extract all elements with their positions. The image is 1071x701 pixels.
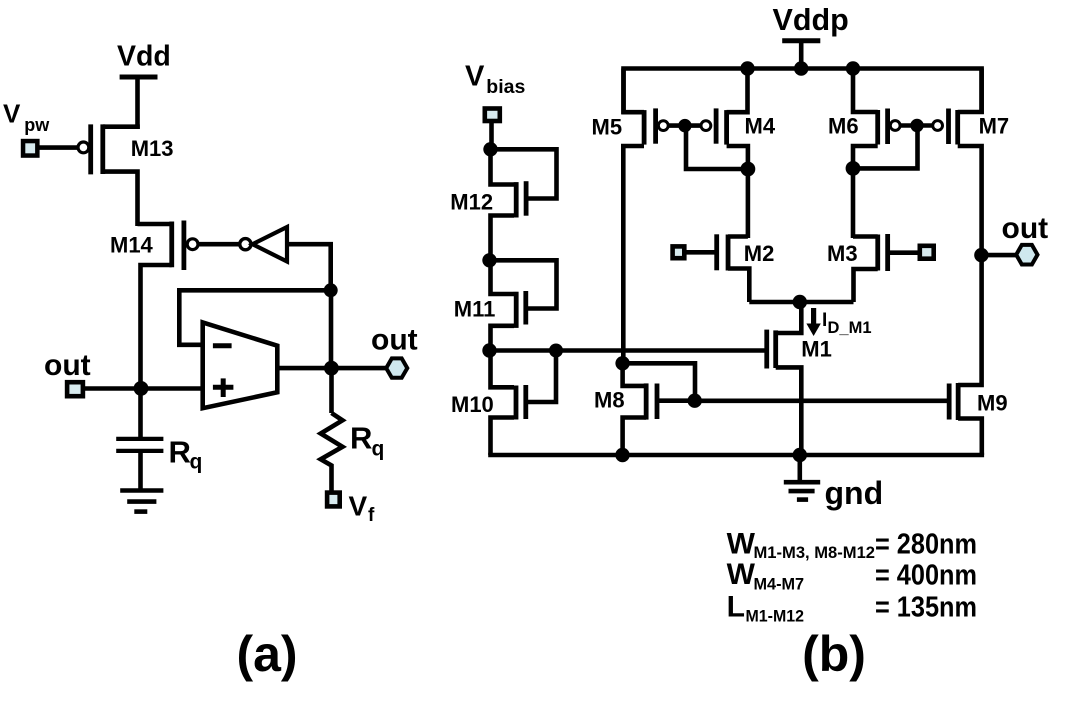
wire top rail [624,69,982,115]
svg-text:M2: M2 [744,241,775,266]
label L M1-M12 [727,590,977,625]
wire feedback [179,290,330,345]
wire tail [749,300,853,305]
terminal V_bias [485,109,500,122]
caption (b) [802,626,866,682]
transistor M1 [767,302,802,455]
terminal V_pw [23,141,37,156]
wire M2 gate [686,250,717,255]
label out b [1002,212,1049,245]
node out [974,248,988,262]
label M4 [745,114,776,139]
label W M1-M3,M8-M12 [727,527,977,562]
node tail [793,295,807,309]
wire M10 gate [526,351,556,403]
transistor M5 [623,69,655,364]
label out right [371,324,418,357]
svg-text:M1: M1 [801,337,832,362]
wire M8 diode [623,363,695,400]
svg-text:M3: M3 [827,241,858,266]
label W M4-M7 [727,558,977,593]
svg-text:= 280nm: = 280nm [875,528,977,560]
svg-text:(a): (a) [236,626,297,682]
label M10 [451,392,494,417]
svg-text:V: V [465,61,485,93]
svg-text:M5: M5 [592,115,623,140]
current arrow I_D_M1 [806,308,820,336]
svg-text:M1-M12: M1-M12 [746,607,805,626]
terminal out left [67,382,83,396]
wire gnd stem [797,455,802,481]
junction rail-M6 [846,61,860,75]
svg-text:M13: M13 [131,136,174,161]
power symbol Vdd [120,77,158,129]
transistor M6 [853,69,888,169]
wire M5-M4 gates [669,123,702,128]
net label Vddp [773,3,849,37]
svg-text:out: out [371,324,418,357]
op-amp U2 [203,322,278,408]
wire node B to capacitor [138,388,143,437]
svg-text:I: I [822,310,827,331]
transistor M2 [717,234,750,302]
label M3 [827,241,858,266]
wire M4-M2 [746,169,751,238]
transistor M8 [623,363,657,455]
power symbol Vddp [782,41,820,70]
svg-text:W: W [727,558,756,591]
svg-text:M11: M11 [454,297,496,322]
capacitor Rq plates [116,439,163,451]
label M1 [801,337,832,362]
label M8 [594,388,625,413]
label M6 [828,114,859,139]
wire M8-M9 gates [695,398,948,403]
svg-text:M4: M4 [745,114,776,139]
label Rq capacitor [169,434,203,473]
node M6 drain [846,161,861,176]
wire op-amp output [277,366,388,371]
junction M4-M5 gates [678,119,691,132]
terminal M3 gate [920,246,934,259]
gate bubble M5 [658,121,668,131]
node C [324,361,339,376]
wire inverter-gate [199,242,240,247]
transistor M4 [716,69,748,172]
wire Vpw-gate [38,145,78,150]
label V_f [349,491,376,527]
wire M11 diode [491,260,557,308]
caption (a) [236,626,297,682]
resistor Rq [321,413,343,491]
transistor M7 [949,69,982,256]
transistor M14 [138,221,184,391]
terminal out b [1016,245,1037,265]
svg-text:V: V [3,99,21,129]
junction rail-M4 [740,61,754,75]
wire M8 gate lead [657,398,695,403]
junction M6-M7 gates [910,119,923,132]
wire M6-M7 gates [900,123,933,128]
junction M10 gate [549,344,563,358]
svg-text:= 135nm: = 135nm [875,592,977,624]
wire M6 diode [853,126,918,169]
junction M10-M11 [482,343,496,357]
svg-text:(b): (b) [802,626,866,682]
svg-text:out: out [44,349,91,382]
svg-text:M1-M3, M8-M12: M1-M3, M8-M12 [754,543,876,562]
node M11 drain [482,253,496,267]
op-amp minus sign [213,343,232,348]
svg-text:q: q [372,438,385,461]
node M4 drain [741,162,756,177]
label M5 [592,115,623,140]
transistor M11 [491,260,526,352]
wire node C to resistor [329,368,334,413]
wire bottom rail [488,453,984,458]
gate bubble M4 [701,121,711,131]
gate bubble M7 [933,121,943,131]
svg-text:L: L [727,590,745,623]
label M11 [454,297,496,322]
svg-text:Vddp: Vddp [773,3,849,37]
node B [134,381,149,396]
svg-text:M10: M10 [451,392,494,417]
wire out to plus input [84,386,203,391]
gate bubble M14 [187,239,198,250]
gate bubble M6 [890,121,900,131]
gate bubble M13 [78,142,89,153]
junction M8 gate [688,394,702,408]
svg-text:q: q [190,451,203,474]
svg-text:M6: M6 [828,114,859,139]
wire node A to inverter [287,244,331,290]
svg-text:M12: M12 [450,190,493,215]
transistor M10 [491,351,526,456]
svg-text:M4-M7: M4-M7 [754,575,805,594]
inverter U1 [253,227,288,262]
label M2 [744,241,775,266]
label I_D_M1 [822,310,872,337]
net label Vdd [117,41,171,73]
svg-text:M14: M14 [110,232,154,257]
label V_bias [465,61,525,99]
transistor M12 [491,149,527,262]
ground symbol b [784,482,820,499]
terminal M2 gate [673,246,685,258]
svg-text:f: f [368,505,375,526]
label V_pw [3,99,50,136]
wire M12 diode [491,149,557,198]
label M14 [110,232,154,257]
svg-text:gnd: gnd [825,475,884,511]
inverter U1 bubble [240,239,251,250]
label out left [44,349,91,382]
svg-text:= 400nm: = 400nm [875,559,977,591]
svg-text:R: R [169,434,191,469]
svg-text:M9: M9 [977,391,1008,416]
wire M3 gate [888,250,918,255]
junction rail-M8 [615,448,629,462]
node M8 drain [615,356,629,370]
wire M1 gate line [491,348,767,353]
wire out [982,253,1017,258]
wire Vbias [489,123,494,151]
svg-text:D_M1: D_M1 [828,319,872,337]
wire node A-C [329,290,334,368]
label M9 [977,391,1008,416]
svg-text:V: V [349,491,368,522]
label M13 [131,136,174,161]
svg-text:M7: M7 [979,114,1010,139]
terminal out right [386,358,407,377]
wire M6-M3 [851,168,856,238]
terminal V_f [327,493,340,507]
transistor M3 [853,234,888,302]
svg-text:W: W [727,527,756,560]
ground symbol a [120,491,163,512]
junction rail-Vddp [794,61,808,75]
transistor M9 [949,255,982,455]
svg-text:R: R [350,421,372,456]
transistor M13 [91,124,138,226]
label M7 [979,114,1010,139]
wire capacitor to ground [138,451,143,490]
svg-text:pw: pw [24,115,50,135]
label Rq resistor [350,421,384,461]
label M12 [450,190,493,215]
wire M4 diode [686,126,748,169]
svg-text:Vdd: Vdd [117,41,171,73]
svg-text:out: out [1002,212,1049,245]
node A [324,283,338,297]
label gnd [825,475,884,511]
junction rail-gnd [793,448,807,462]
svg-text:bias: bias [486,76,525,98]
op-amp plus sign [213,378,234,397]
node M12 drain [483,142,497,156]
svg-text:M8: M8 [594,388,625,413]
